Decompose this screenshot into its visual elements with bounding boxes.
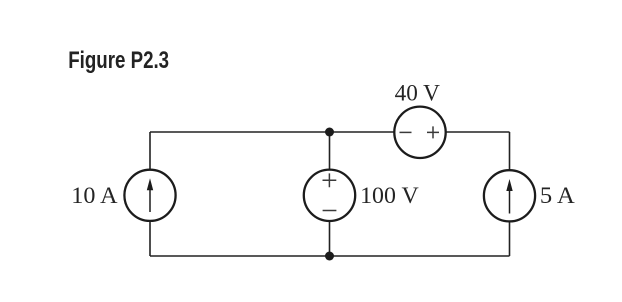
svg-text:5 A: 5 A bbox=[540, 183, 575, 209]
wire: bottom wire from bottom-left corner to bottom-right corner bbox=[150, 255, 510, 257]
wire: top wire from top-left corner to top-right corner bbox=[150, 131, 510, 133]
voltage source 40 V (top wire) bbox=[394, 107, 445, 158]
node: top node junction bbox=[325, 128, 334, 137]
svg-text:Figure P2.3: Figure P2.3 bbox=[68, 47, 169, 74]
svg-text:10 A: 10 A bbox=[71, 183, 117, 209]
svg-text:100 V: 100 V bbox=[360, 183, 419, 209]
wire: right branch vertical bbox=[509, 132, 511, 256]
node: bottom node junction bbox=[325, 252, 334, 261]
svg-text:40 V: 40 V bbox=[395, 81, 441, 107]
wire: middle branch vertical bbox=[329, 132, 331, 256]
current source 5 A (right branch) bbox=[484, 170, 535, 221]
voltage source 100 V (middle branch) bbox=[304, 170, 355, 221]
wire: left branch vertical bbox=[149, 132, 151, 256]
current source 10 A (left branch) bbox=[124, 170, 175, 221]
